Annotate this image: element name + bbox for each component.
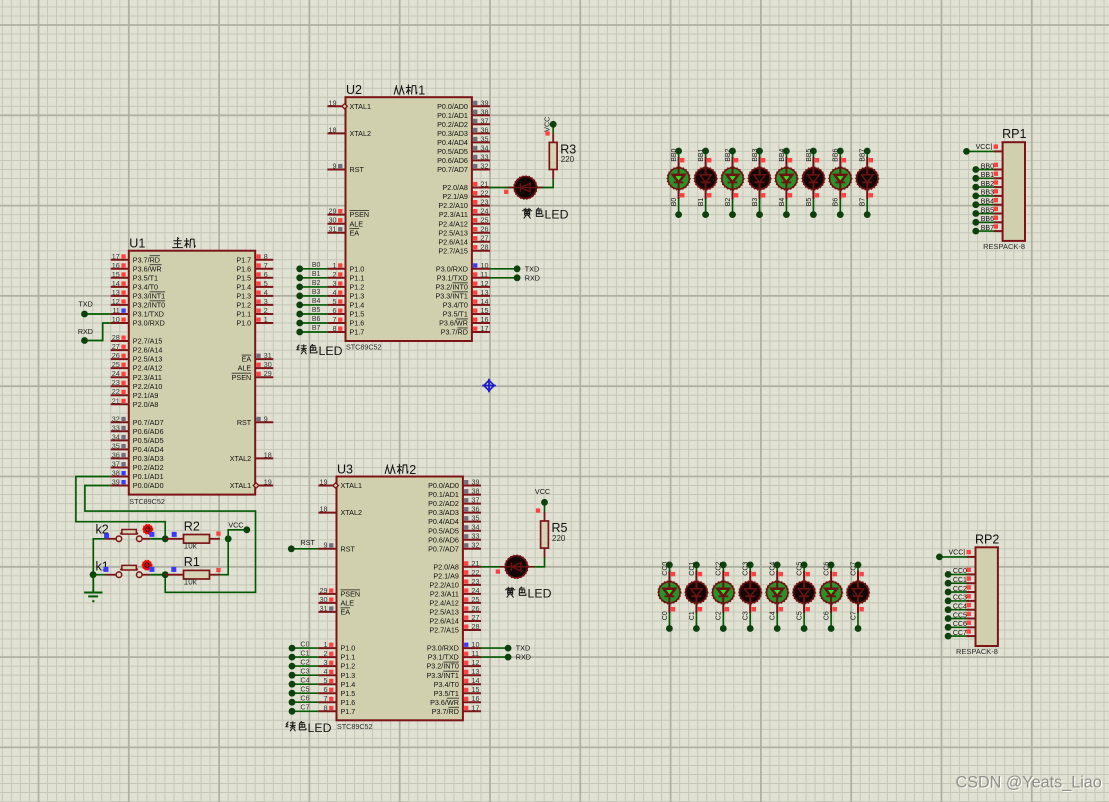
svg-text:4: 4: [264, 288, 268, 297]
svg-text:P0.6/AD6: P0.6/AD6: [428, 535, 459, 544]
U1 pin 11: [111, 306, 164, 319]
label 黄色LED R5: [505, 587, 551, 601]
svg-text:220: 220: [552, 534, 566, 543]
svg-text:VCC: VCC: [543, 117, 552, 132]
svg-text:P0.2/AD2: P0.2/AD2: [133, 463, 164, 472]
indicator D-B3 top: [761, 158, 765, 162]
U1 pin 32: [111, 414, 164, 427]
wire RP1 BB6: [976, 221, 994, 223]
node D-C1 bottom: [693, 625, 700, 632]
svg-text:RST: RST: [237, 418, 252, 427]
svg-text:25: 25: [481, 216, 489, 225]
node C5: [289, 686, 310, 696]
svg-text:4: 4: [324, 667, 328, 676]
wire D-U2 VCC stub: [552, 124, 554, 133]
svg-text:CC3: CC3: [953, 595, 967, 602]
U2 pin 5: [327, 297, 364, 310]
node D-B7 top: [864, 148, 871, 155]
svg-text:29: 29: [320, 586, 328, 595]
svg-text:23: 23: [112, 378, 120, 387]
U2 pin 32: [437, 162, 490, 175]
U1 pin 27: [111, 342, 163, 355]
svg-text:P0.6/AD6: P0.6/AD6: [437, 156, 468, 165]
node D-B1 top: [702, 148, 709, 155]
LED D-B3 (off): [748, 157, 771, 199]
svg-text:2: 2: [264, 306, 268, 315]
LED D-C6 (on): [820, 571, 843, 613]
wire RP2 CC6: [948, 626, 966, 628]
svg-text:31: 31: [320, 604, 328, 613]
svg-text:P0.2/AD2: P0.2/AD2: [437, 120, 468, 129]
svg-text:LED: LED: [528, 587, 552, 601]
svg-text:BB6: BB6: [981, 216, 994, 223]
svg-text:P1.2: P1.2: [341, 662, 356, 671]
U1 pin 16: [111, 261, 162, 274]
U3 pin 36: [428, 505, 481, 518]
svg-text:CC0: CC0: [953, 568, 967, 575]
indicator D-C2 top: [725, 572, 729, 576]
ground symbol: [84, 575, 102, 602]
indicator k1 right blue: [149, 567, 154, 572]
svg-text:30: 30: [264, 360, 272, 369]
wire D-B3 top: [759, 151, 761, 159]
svg-text:12: 12: [112, 297, 120, 306]
indicator D-C5 bottom: [806, 607, 810, 611]
svg-text:TXD: TXD: [525, 264, 539, 273]
svg-text:16: 16: [112, 261, 120, 270]
svg-text:36: 36: [472, 505, 480, 514]
svg-text:13: 13: [472, 667, 480, 676]
U3 pin 17: [432, 703, 481, 716]
svg-text:P2.6/A14: P2.6/A14: [133, 346, 163, 355]
U1 pin 39: [111, 478, 164, 491]
resistor R1: [166, 555, 220, 586]
node U2 RXD: [514, 273, 540, 282]
wire RP2 CC2: [948, 591, 966, 593]
node D-C5 top: [801, 562, 808, 569]
node D-B2 top: [729, 148, 736, 155]
svg-text:P1.1: P1.1: [350, 273, 365, 282]
U2 pin 16: [439, 315, 490, 328]
RP1 pin BB5: [981, 207, 1003, 214]
U1 pin 29: [232, 369, 274, 382]
LED D-C3 (off): [739, 571, 762, 613]
RP1 pin BB1: [981, 172, 1003, 179]
U2 pin 33: [437, 152, 490, 165]
indicator R2 right red: [216, 531, 220, 535]
U1 pin 13: [111, 288, 165, 301]
svg-text:BB4: BB4: [779, 148, 786, 161]
svg-text:P1.1: P1.1: [341, 653, 356, 662]
U2 pin 17: [441, 324, 490, 337]
indicator D-B7 bottom: [869, 193, 873, 197]
node RP2 CC1: [945, 580, 952, 587]
svg-text:P2.6/A14: P2.6/A14: [429, 617, 459, 626]
svg-text:3: 3: [324, 658, 328, 667]
svg-text:P2.2/A10: P2.2/A10: [133, 382, 163, 391]
svg-text:9: 9: [324, 541, 328, 550]
svg-text:TXD: TXD: [516, 644, 530, 653]
svg-text:C3: C3: [743, 611, 750, 620]
svg-text:BB7: BB7: [981, 225, 994, 232]
svg-text:21: 21: [472, 559, 480, 568]
wire net C7 to U3 P1.7: [292, 710, 318, 712]
svg-text:P0.0/AD0: P0.0/AD0: [437, 102, 468, 111]
svg-text:C2: C2: [716, 611, 723, 620]
svg-text:27: 27: [481, 234, 489, 243]
svg-text:18: 18: [264, 450, 272, 459]
svg-text:C0: C0: [301, 641, 310, 648]
svg-text:29: 29: [264, 369, 272, 378]
wire net B5 to U2 P1.5: [300, 313, 328, 315]
wire D-C3 bottom: [749, 612, 751, 628]
U1 pin 34: [111, 432, 164, 445]
svg-text:37: 37: [481, 116, 489, 125]
svg-text:P0.1/AD1: P0.1/AD1: [428, 490, 459, 499]
node C3: [289, 668, 310, 678]
svg-text:P0.3/AD3: P0.3/AD3: [437, 129, 468, 138]
svg-text:P3.0/RXD: P3.0/RXD: [427, 644, 459, 653]
svg-text:14: 14: [481, 297, 489, 306]
svg-text:B5: B5: [312, 307, 321, 314]
svg-text:32: 32: [112, 414, 120, 423]
svg-text:B7: B7: [860, 198, 867, 207]
svg-text:22: 22: [472, 568, 480, 577]
RP1 pin BB3: [981, 190, 1003, 197]
node k2/R2 junction: [162, 535, 169, 542]
svg-text:P1.3: P1.3: [341, 671, 356, 680]
indicator D-B6 top: [842, 158, 846, 162]
svg-text:XTAL2: XTAL2: [350, 129, 371, 138]
svg-text:P3.5/T1: P3.5/T1: [443, 310, 468, 319]
svg-text:BB5: BB5: [806, 148, 813, 161]
U2 pin 31: [327, 225, 359, 238]
node RP2 CC4: [945, 606, 952, 613]
svg-text:C5: C5: [797, 611, 804, 620]
svg-text:BB3: BB3: [752, 148, 759, 161]
U2 pin 22: [442, 189, 490, 202]
svg-text:31: 31: [329, 225, 337, 234]
svg-text:BB0: BB0: [671, 148, 678, 161]
svg-text:P2.2/A10: P2.2/A10: [429, 581, 459, 590]
svg-text:34: 34: [481, 143, 489, 152]
wire U2 TXD: [490, 268, 517, 270]
wire RP1 BB1: [976, 177, 994, 179]
svg-text:P1.5: P1.5: [350, 310, 365, 319]
U2 pin 26: [438, 225, 490, 238]
svg-text:C7: C7: [301, 705, 310, 712]
svg-text:P1.3: P1.3: [350, 292, 365, 301]
svg-text:1: 1: [264, 315, 268, 324]
indicator D-B5 bottom: [815, 193, 819, 197]
svg-text:P2.5/A13: P2.5/A13: [438, 228, 468, 237]
svg-text:6: 6: [333, 306, 337, 315]
svg-text:LED: LED: [319, 344, 343, 358]
svg-text:P2.3/A11: P2.3/A11: [133, 373, 162, 382]
svg-text:P0.4/AD4: P0.4/AD4: [437, 138, 468, 147]
svg-text:B5: B5: [806, 198, 813, 207]
svg-text:33: 33: [112, 423, 120, 432]
node C2: [289, 659, 310, 669]
svg-text:U3: U3: [337, 463, 353, 477]
indicator RP1 BB0: [994, 163, 998, 167]
svg-text:22: 22: [481, 189, 489, 198]
svg-text:10: 10: [481, 261, 489, 270]
U1 pin 6: [236, 270, 273, 283]
indicator k1 left blue: [104, 567, 109, 572]
svg-text:P0.4/AD4: P0.4/AD4: [428, 517, 459, 526]
indicator R1 left blue: [171, 567, 176, 572]
svg-text:1: 1: [418, 84, 425, 98]
indicator D-C7 bottom: [859, 607, 863, 611]
svg-text:3: 3: [264, 297, 268, 306]
svg-text:P1.5: P1.5: [236, 273, 251, 282]
svg-text:C0: C0: [662, 611, 669, 620]
svg-text:220: 220: [561, 155, 575, 164]
svg-text:P3.6/WR: P3.6/WR: [439, 319, 468, 328]
node RP1 BB1: [972, 175, 979, 182]
svg-text:P1.7: P1.7: [236, 255, 251, 264]
indicator D-C2 bottom: [725, 607, 729, 611]
resistor R2: [166, 519, 220, 550]
svg-text:10: 10: [112, 315, 120, 324]
U1 pin 9: [237, 414, 273, 427]
svg-text:11: 11: [481, 270, 488, 279]
svg-text:PSEN: PSEN: [350, 210, 370, 219]
svg-text:P0.6/AD6: P0.6/AD6: [133, 427, 164, 436]
svg-text:P0.1/AD1: P0.1/AD1: [437, 111, 468, 120]
svg-text:P0.3/AD3: P0.3/AD3: [133, 454, 164, 463]
svg-text:P2.3/A11: P2.3/A11: [430, 590, 459, 599]
svg-text:EA: EA: [242, 355, 252, 364]
svg-text:CC2: CC2: [716, 562, 723, 576]
indicator R5 top: [536, 508, 540, 512]
U2 pin 14: [443, 297, 490, 310]
U3 pin 4: [318, 667, 355, 680]
node D-B2 bottom: [729, 211, 736, 218]
svg-text:CC6: CC6: [953, 621, 967, 628]
svg-text:21: 21: [481, 180, 489, 189]
node U3 RXD: [505, 653, 531, 662]
indicator D-U3 wire: [496, 569, 500, 573]
svg-text:P3.0/RXD: P3.0/RXD: [436, 264, 468, 273]
wire D-B2 bottom: [732, 198, 734, 214]
svg-text:XTAL1: XTAL1: [230, 481, 251, 490]
U3 pin 21: [433, 559, 481, 572]
U3 pin 16: [430, 694, 481, 707]
node D-C7 bottom: [855, 625, 862, 632]
chip U1 title: [129, 237, 195, 251]
svg-text:6: 6: [324, 685, 328, 694]
U3 pin 19: [318, 478, 362, 491]
node RP1 BB5: [972, 210, 979, 217]
indicator k2 left blue: [104, 533, 109, 538]
svg-text:7: 7: [324, 694, 328, 703]
svg-text:B6: B6: [833, 198, 840, 207]
wire net B2 to U2 P1.2: [300, 286, 328, 288]
svg-text:30: 30: [329, 216, 337, 225]
svg-text:C4: C4: [301, 677, 310, 684]
svg-text:21: 21: [112, 396, 120, 405]
indicator D-B4 top: [788, 158, 792, 162]
svg-text:22: 22: [112, 387, 120, 396]
svg-text:24: 24: [481, 207, 489, 216]
U1 XTAL1 pin marker: [253, 483, 259, 488]
RP1 pin BB0: [981, 163, 1003, 170]
wire D-B7 top: [866, 151, 868, 159]
wire net B3 to U2 P1.3: [300, 295, 328, 297]
wire D-B7 bottom: [866, 198, 868, 214]
svg-text:3: 3: [333, 279, 337, 288]
svg-text:P3.4/T0: P3.4/T0: [443, 301, 468, 310]
svg-text:P3.4/T0: P3.4/T0: [434, 680, 459, 689]
node RP1 BB2: [972, 184, 979, 191]
wire D-C2 bottom: [722, 612, 724, 628]
svg-text:8: 8: [324, 703, 328, 712]
wire net B1 to U2 P1.1: [300, 277, 328, 279]
svg-text:15: 15: [472, 685, 480, 694]
indicator D-C3 bottom: [752, 607, 756, 611]
svg-text:P0.4/AD4: P0.4/AD4: [133, 445, 164, 454]
U3 pin 6: [318, 685, 355, 698]
svg-text:RXD: RXD: [525, 273, 540, 282]
wire net C0 to U3 P1.0: [292, 647, 318, 649]
svg-text:15: 15: [481, 306, 489, 315]
node D-C4 bottom: [774, 625, 781, 632]
U1 pin 18: [230, 450, 274, 463]
U2 pin 8: [327, 324, 364, 337]
svg-text:C2: C2: [301, 659, 310, 666]
indicator D-B1 bottom: [707, 193, 711, 197]
svg-text:P2.0/A8: P2.0/A8: [442, 183, 468, 192]
U3 pin 5: [318, 676, 355, 689]
U1 pin 30: [238, 360, 274, 373]
svg-text:P0.7/AD7: P0.7/AD7: [437, 165, 468, 174]
svg-text:36: 36: [481, 125, 489, 134]
svg-text:17: 17: [112, 252, 120, 261]
RP1 pin BB6: [981, 216, 1003, 223]
node D-B1 bottom: [702, 211, 709, 218]
svg-text:35: 35: [472, 514, 480, 523]
wire D-B1 bottom: [705, 198, 707, 214]
LED D-B5 (off): [802, 157, 825, 199]
node D-C1 top: [693, 562, 700, 569]
svg-text:P3.5/T1: P3.5/T1: [133, 273, 158, 282]
wire D-B4 top: [785, 151, 787, 159]
svg-text:P3.7/RD: P3.7/RD: [441, 328, 468, 337]
wire RP1 BB2: [976, 186, 994, 188]
node RP1 VCC: [963, 148, 970, 155]
svg-text:P3.5/T1: P3.5/T1: [434, 689, 459, 698]
U3 pin 7: [318, 694, 355, 707]
U1 pin 15: [111, 270, 158, 283]
svg-text:25: 25: [472, 595, 480, 604]
indicator RP1 BB6: [994, 216, 998, 220]
node D-B0 bottom: [675, 211, 682, 218]
svg-text:17: 17: [481, 324, 489, 333]
RP1 pin BB7: [981, 225, 1003, 232]
svg-text:C5: C5: [301, 686, 310, 693]
U2 pin 7: [327, 315, 364, 328]
indicator RP2 CC2: [967, 585, 971, 589]
node D-B4 top: [783, 148, 790, 155]
svg-text:RP1: RP1: [1002, 127, 1026, 141]
indicator D-C4 top: [779, 572, 783, 576]
wire D-C7 bottom: [857, 612, 859, 628]
svg-text:27: 27: [112, 342, 120, 351]
svg-text:10: 10: [472, 640, 480, 649]
svg-text:BB4: BB4: [981, 199, 994, 206]
LED D-B7 (off): [856, 157, 879, 199]
U1 pin 17: [111, 252, 160, 265]
node D-B5 top: [810, 148, 817, 155]
svg-text:28: 28: [112, 333, 120, 342]
svg-text:P0.5/AD5: P0.5/AD5: [133, 436, 164, 445]
svg-text:12: 12: [481, 279, 489, 288]
svg-text:P1.2: P1.2: [350, 283, 365, 292]
node B2: [296, 280, 320, 290]
svg-text:P3.6/WR: P3.6/WR: [133, 264, 162, 273]
wire RXD to U1 pin10: [85, 323, 111, 341]
wire D-C3 top: [749, 565, 751, 573]
wire D-C6 bottom: [830, 612, 832, 628]
U2 pin 37: [437, 116, 490, 129]
svg-text:38: 38: [481, 107, 489, 116]
U2 pin 29: [327, 207, 369, 220]
U1 pin 23: [111, 378, 163, 391]
svg-text:P0.7/AD7: P0.7/AD7: [428, 544, 459, 553]
push button k1: [105, 560, 165, 577]
indicator RP1 BB3: [994, 189, 998, 193]
wire D-C5 bottom: [803, 612, 805, 628]
U3 pin 1: [318, 640, 355, 653]
svg-text:4: 4: [333, 288, 337, 297]
wire D-C0 bottom: [668, 612, 670, 628]
svg-text:CC1: CC1: [953, 577, 967, 584]
node RP2 CC6: [945, 624, 952, 631]
svg-text:5: 5: [264, 279, 268, 288]
wire K1 junction to switch: [93, 574, 105, 576]
svg-text:13: 13: [481, 288, 489, 297]
LED D-B4 (on): [775, 157, 798, 199]
svg-text:U1: U1: [129, 237, 145, 251]
svg-text:BB6: BB6: [833, 148, 840, 161]
RP2 pin CC3: [953, 595, 976, 602]
svg-text:P1.6: P1.6: [236, 264, 251, 273]
svg-text:14: 14: [472, 676, 480, 685]
svg-text:2: 2: [409, 463, 416, 477]
wire RP2 CC5: [948, 618, 966, 620]
U3 pin 18: [318, 505, 362, 518]
U2 pin 9: [327, 162, 364, 175]
U1 pin 38: [111, 469, 164, 482]
svg-text:P2.4/A12: P2.4/A12: [429, 599, 459, 608]
U3 pin 2: [318, 649, 355, 662]
U1 pin 2: [236, 306, 273, 319]
U3 pin 29: [318, 586, 360, 599]
chip U2 title: [346, 83, 425, 98]
wire RP2 CC4: [948, 609, 966, 611]
svg-text:ALE: ALE: [350, 219, 364, 228]
wire RP1 VCC: [967, 150, 994, 152]
RP2 pin CC1: [953, 577, 976, 584]
push button k2: [105, 525, 165, 542]
node RP2 CC2: [945, 589, 952, 596]
U3 pin 31: [318, 604, 350, 617]
svg-text:28: 28: [481, 243, 489, 252]
svg-text:33: 33: [481, 152, 489, 161]
U1 pin 31: [242, 351, 274, 364]
